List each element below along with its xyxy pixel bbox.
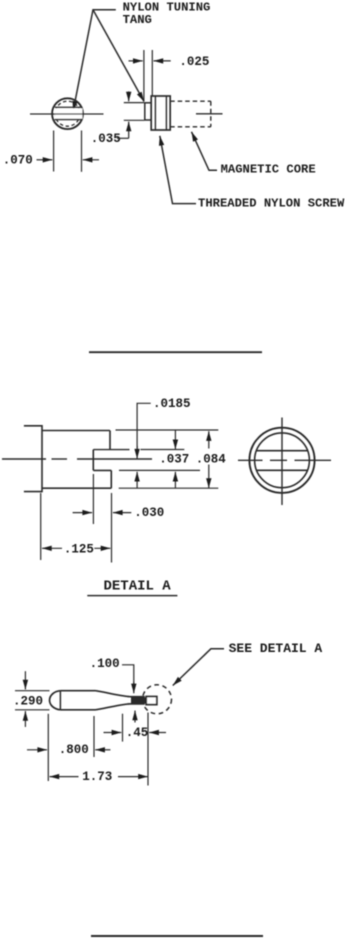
handle cap (rounded end) xyxy=(50,691,61,710)
slot band (white) xyxy=(55,108,83,119)
tang extension lines for .035 xyxy=(124,102,144,104)
svg-text:.125: .125 xyxy=(64,542,94,556)
blade tip rect xyxy=(146,697,157,705)
vertical centerline xyxy=(281,418,283,506)
slot top edge + extension xyxy=(93,449,129,451)
dim .0185 lower arrow xyxy=(136,472,138,488)
extension at taper start xyxy=(93,716,95,757)
detail A end view outer circle xyxy=(249,428,314,493)
detail A rod: left break vertical xyxy=(41,425,43,492)
svg-text:TANG: TANG xyxy=(123,13,152,27)
dim .070 extension lines xyxy=(53,131,55,172)
horizontal centerline through circle xyxy=(30,113,104,115)
dim .800 arrows xyxy=(27,749,47,751)
dim .100 lower arrow xyxy=(134,711,136,723)
rod end top vertical xyxy=(109,431,111,450)
rod bottom edge xyxy=(42,487,111,489)
svg-text:SEE DETAIL A: SEE DETAIL A xyxy=(229,641,323,656)
dim .45 arrows xyxy=(104,732,122,734)
extension left of .45 xyxy=(122,714,124,742)
left extension line (handle end) xyxy=(47,714,49,781)
separator line (top/middle) xyxy=(89,351,262,353)
slot top chord xyxy=(257,450,308,452)
slot bottom chord xyxy=(257,469,308,471)
separator line (bottom) xyxy=(91,935,263,937)
screw head chamfer lines xyxy=(154,96,156,130)
horizontal centerline (dash-dot) xyxy=(238,459,331,461)
dim .030 arrows xyxy=(73,512,93,514)
extension below slot inner end xyxy=(92,474,94,524)
end view circle (tool tip, top) xyxy=(52,98,83,129)
label NYLON TUNING TANG xyxy=(123,1,211,27)
magnetic core (hidden, dashed) xyxy=(170,100,211,102)
svg-text:.0185: .0185 xyxy=(153,397,191,411)
svg-text:DETAIL A: DETAIL A xyxy=(104,579,172,595)
svg-text:.45: .45 xyxy=(126,726,149,740)
nylon tang (side view) xyxy=(145,103,151,120)
leader from label to slot of end view xyxy=(73,10,116,111)
svg-text:.290: .290 xyxy=(13,695,43,709)
svg-text:.035: .035 xyxy=(91,132,121,146)
right extension (tip end) xyxy=(147,713,149,786)
left break top stub xyxy=(24,425,42,427)
taper bottom xyxy=(96,704,131,710)
dim .025 extension lines xyxy=(143,50,145,102)
svg-text:.030: .030 xyxy=(134,506,164,520)
svg-text:.037: .037 xyxy=(159,452,189,466)
rod top extension row xyxy=(116,429,219,431)
inner dashed circle xyxy=(55,101,80,126)
slot bottom chord xyxy=(55,119,83,121)
taper top xyxy=(96,691,131,697)
svg-text:.025: .025 xyxy=(179,55,209,69)
rod bottom extension row xyxy=(119,487,219,489)
dim .125 arrows xyxy=(42,547,62,549)
handle cap chord xyxy=(59,691,61,710)
dim .290 extension lines xyxy=(15,690,50,692)
dim .290 arrows xyxy=(24,671,26,689)
centerline of screw xyxy=(196,113,223,115)
slot bottom extension xyxy=(119,469,200,471)
shaft top xyxy=(130,696,145,698)
dashed detail circle at tip xyxy=(143,685,172,714)
svg-text:.070: .070 xyxy=(3,154,33,168)
svg-text:1.73: 1.73 xyxy=(82,770,112,784)
threaded nylon screw head xyxy=(151,96,170,130)
dim .037 arrows xyxy=(174,430,176,449)
slot inner end vertical xyxy=(92,450,94,471)
svg-text:.800: .800 xyxy=(59,743,89,757)
handle bottom edge xyxy=(60,709,95,711)
leader from label to tang on side view xyxy=(93,10,144,102)
left break bottom stub xyxy=(24,491,42,493)
shaft bottom xyxy=(130,703,145,705)
slot top chord xyxy=(55,106,83,108)
slot bottom edge xyxy=(93,469,111,471)
dim .035 arrows xyxy=(128,91,130,101)
dim 1.73 arrows xyxy=(50,776,79,778)
detail A end view inner circle xyxy=(255,433,310,488)
svg-text:MAGNETIC CORE: MAGNETIC CORE xyxy=(221,163,316,177)
dim .070 arrows xyxy=(37,159,53,161)
rod end bottom vertical xyxy=(110,470,112,488)
extension below rod left end xyxy=(40,493,42,560)
svg-text:THREADED NYLON SCREW: THREADED NYLON SCREW xyxy=(198,197,345,211)
handle top edge xyxy=(60,690,95,692)
rod top edge xyxy=(42,430,110,432)
svg-text:.084: .084 xyxy=(196,452,227,466)
DETAIL A underline xyxy=(87,595,177,597)
dim .084 arrows xyxy=(208,431,210,448)
svg-text:.100: .100 xyxy=(90,657,120,671)
dim .025 arrows xyxy=(129,60,143,62)
shaft fill dark xyxy=(131,697,147,703)
extension below rod end xyxy=(111,493,113,563)
rod centerline xyxy=(2,458,152,460)
